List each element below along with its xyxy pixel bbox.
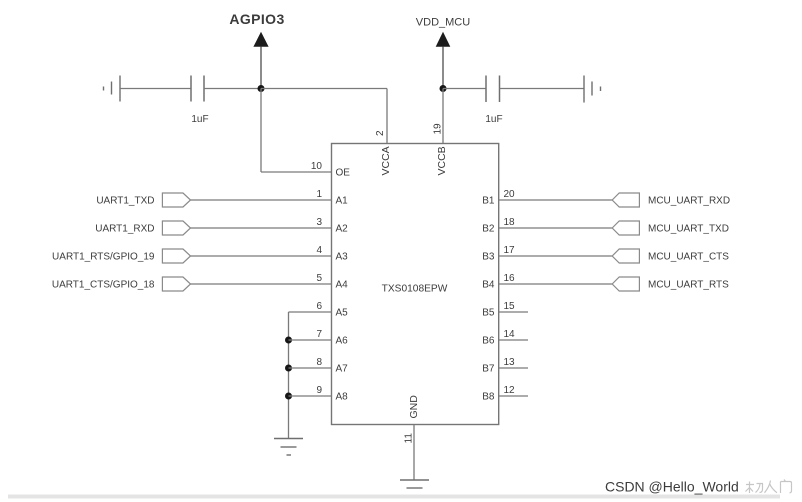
svg-text:16: 16 [504, 273, 516, 284]
svg-text:1uF: 1uF [191, 114, 208, 125]
pin name A3 [336, 252, 349, 263]
wire OE branch vertical [260, 89, 262, 173]
wire junction to C2 [443, 88, 486, 90]
pin number 14 [504, 329, 516, 340]
svg-text:A7: A7 [336, 364, 349, 375]
capacitor 1uF (left) [191, 76, 209, 126]
pin number 20 [504, 189, 516, 200]
svg-text:1uF: 1uF [485, 114, 502, 125]
svg-text:OE: OE [336, 168, 351, 179]
junction dot A7 [285, 365, 292, 372]
pin number 2 [375, 130, 386, 136]
wire B1 [499, 199, 613, 201]
svg-text:2: 2 [375, 130, 386, 136]
wire ground to C1 [120, 88, 191, 90]
pin name A2 [336, 224, 349, 235]
svg-text:VCCB: VCCB [436, 146, 448, 175]
pin name A5 [336, 308, 349, 319]
capacitor 1uF (right) [485, 76, 502, 126]
svg-text:7: 7 [316, 329, 322, 340]
pin number 4 [316, 245, 322, 256]
wire A2 [191, 227, 333, 229]
svg-text:GND: GND [408, 395, 420, 419]
pin number 7 [316, 329, 322, 340]
svg-text:3: 3 [316, 217, 322, 228]
pin number 13 [504, 357, 516, 368]
svg-text:MCU_UART_RXD: MCU_UART_RXD [648, 196, 730, 207]
pin name B6 [482, 336, 495, 347]
pin name OE [336, 168, 351, 179]
svg-text:20: 20 [504, 189, 516, 200]
wire B3 [499, 255, 613, 257]
junction dot AGPIO3 [258, 85, 265, 92]
pin number 6 [316, 301, 322, 312]
junction dot A6 [285, 337, 292, 344]
netflag MCU_UART_RXD [612, 193, 730, 207]
netflag UART1_TXD [96, 193, 190, 207]
svg-text:UART1_RTS/GPIO_19: UART1_RTS/GPIO_19 [52, 252, 155, 263]
svg-text:A4: A4 [336, 280, 349, 291]
pin number 19 [433, 123, 444, 135]
svg-text:B6: B6 [482, 336, 495, 347]
svg-text:A3: A3 [336, 252, 349, 263]
svg-text:B7: B7 [482, 364, 495, 375]
pin number 15 [504, 301, 516, 312]
svg-text:13: 13 [504, 357, 516, 368]
wire B8 stub [499, 395, 529, 397]
pin number 10 [311, 161, 323, 172]
svg-text:UART1_TXD: UART1_TXD [96, 196, 154, 207]
pin number 8 [316, 357, 322, 368]
pin number 11 [404, 433, 415, 444]
svg-text:B3: B3 [482, 252, 495, 263]
bottom scrollbar bar [8, 495, 780, 499]
svg-text:A5: A5 [336, 308, 349, 319]
wire B6 stub [499, 339, 529, 341]
wire VCCB drop (pin 19) [442, 89, 444, 144]
netflag MCU_UART_TXD [612, 221, 729, 235]
IC U1 TXS0108EPW body [332, 144, 499, 425]
pin name B2 [482, 224, 495, 235]
junction dot VDD_MCU [440, 85, 447, 92]
pin name B3 [482, 252, 495, 263]
svg-text:AGPIO3: AGPIO3 [229, 11, 284, 27]
pin name GND [408, 395, 420, 419]
svg-text:VDD_MCU: VDD_MCU [416, 17, 470, 29]
svg-text:12: 12 [504, 385, 516, 396]
wire A6 [289, 339, 333, 341]
svg-text:A2: A2 [336, 224, 349, 235]
wire A4 [191, 283, 333, 285]
pin name A4 [336, 280, 349, 291]
svg-text:6: 6 [316, 301, 322, 312]
svg-text:4: 4 [316, 245, 322, 256]
netflag MCU_UART_CTS [612, 249, 729, 263]
pin number 12 [504, 385, 516, 396]
svg-text:VCCA: VCCA [380, 146, 392, 175]
wire B2 [499, 227, 613, 229]
pin number 18 [504, 217, 516, 228]
svg-text:UART1_RXD: UART1_RXD [95, 224, 154, 235]
power net label VDD_MCU [416, 17, 470, 89]
svg-text:A1: A1 [336, 196, 349, 207]
svg-text:B4: B4 [482, 280, 495, 291]
svg-text:B1: B1 [482, 196, 495, 207]
svg-text:10: 10 [311, 161, 323, 172]
svg-text:A6: A6 [336, 336, 349, 347]
svg-text:UART1_CTS/GPIO_18: UART1_CTS/GPIO_18 [52, 280, 155, 291]
pin number 1 [316, 189, 322, 200]
netflag MCU_UART_RTS [612, 277, 729, 291]
wire A1 [191, 199, 333, 201]
svg-text:14: 14 [504, 329, 516, 340]
wire VCCA drop (pin 2) [386, 89, 388, 144]
ground (bottom left, A bus) [274, 439, 303, 456]
ground (right, rotated) [584, 76, 601, 103]
ground (left, rotated) [104, 76, 121, 102]
wire OE branch horizontal [261, 171, 332, 173]
pin name A8 [336, 392, 349, 403]
netflag UART1_CTS/GPIO_18 [52, 277, 191, 291]
ground (bottom, IC GND) [400, 480, 429, 496]
GND pin wire (pin 11) [413, 425, 415, 481]
netflag UART1_RXD [95, 221, 190, 235]
svg-text:1: 1 [316, 189, 322, 200]
pin name A7 [336, 364, 349, 375]
wire A8 [289, 395, 333, 397]
power net label AGPIO3 [229, 11, 284, 89]
pin name A1 [336, 196, 349, 207]
svg-text:TXS0108EPW: TXS0108EPW [382, 284, 448, 295]
svg-text:CSDN @Hello_World: CSDN @Hello_World [605, 479, 739, 495]
wire B7 stub [499, 367, 529, 369]
svg-text:9: 9 [316, 385, 322, 396]
svg-text:19: 19 [433, 123, 444, 135]
svg-text:17: 17 [504, 245, 516, 256]
pin name VCCA [380, 146, 392, 175]
svg-text:11: 11 [404, 433, 415, 444]
A-side bus vertical wire [288, 312, 290, 439]
watermark CSDN @Hello_World初入门 [605, 479, 792, 495]
pin number 3 [316, 217, 322, 228]
pin name B4 [482, 280, 495, 291]
wire junction to VCCA corner [261, 88, 387, 90]
svg-text:B8: B8 [482, 392, 495, 403]
pin name VCCB [436, 146, 448, 175]
svg-text:15: 15 [504, 301, 516, 312]
netflag UART1_RTS/GPIO_19 [52, 249, 190, 263]
svg-text:MCU_UART_RTS: MCU_UART_RTS [648, 280, 729, 291]
wire B4 [499, 283, 613, 285]
svg-text:5: 5 [316, 273, 322, 284]
svg-text:B2: B2 [482, 224, 495, 235]
pin name A6 [336, 336, 349, 347]
pin name B8 [482, 392, 495, 403]
wire B5 stub [499, 311, 529, 313]
pin name B7 [482, 364, 495, 375]
wire A3 [191, 255, 333, 257]
pin name B1 [482, 196, 495, 207]
svg-text:MCU_UART_TXD: MCU_UART_TXD [648, 224, 729, 235]
pin name B5 [482, 308, 495, 319]
wire A7 [289, 367, 333, 369]
wire A5 [289, 311, 333, 313]
svg-text:MCU_UART_CTS: MCU_UART_CTS [648, 252, 729, 263]
wire C2 to ground [500, 88, 585, 90]
wire C1 to junction [204, 88, 261, 90]
pin number 5 [316, 273, 322, 284]
junction dot A8 [285, 393, 292, 400]
svg-text:A8: A8 [336, 392, 349, 403]
pin number 17 [504, 245, 516, 256]
svg-text:18: 18 [504, 217, 516, 228]
pin number 9 [316, 385, 322, 396]
svg-text:8: 8 [316, 357, 322, 368]
pin number 16 [504, 273, 516, 284]
svg-text:B5: B5 [482, 308, 495, 319]
